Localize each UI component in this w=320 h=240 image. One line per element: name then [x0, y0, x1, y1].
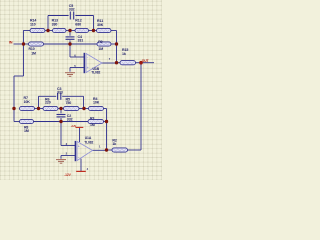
- svg-text:+12V: +12V: [71, 125, 77, 128]
- svg-text:+: +: [87, 66, 89, 70]
- svg-text:R10: R10: [29, 47, 35, 51]
- svg-text:+: +: [78, 145, 80, 149]
- svg-text:110: 110: [30, 23, 36, 27]
- svg-text:1M: 1M: [90, 123, 95, 127]
- svg-text:220: 220: [45, 101, 51, 105]
- svg-text:680: 680: [75, 23, 81, 27]
- svg-text:10K: 10K: [24, 100, 31, 104]
- svg-text:330: 330: [52, 23, 58, 27]
- svg-text:1k: 1k: [122, 52, 126, 56]
- svg-text:1M: 1M: [24, 129, 29, 133]
- svg-text:332: 332: [69, 7, 75, 11]
- svg-text:1k: 1k: [112, 142, 116, 146]
- svg-text:333: 333: [57, 90, 63, 94]
- svg-text:TL082: TL082: [84, 140, 93, 144]
- svg-text:1M: 1M: [31, 51, 36, 55]
- svg-text:10K: 10K: [93, 101, 100, 105]
- svg-text:TL082: TL082: [91, 70, 100, 74]
- svg-text:750: 750: [66, 101, 72, 105]
- svg-text:332: 332: [67, 118, 73, 122]
- svg-text:30K: 30K: [97, 23, 104, 27]
- svg-text:-12V: -12V: [64, 173, 71, 177]
- svg-text:R9: R9: [98, 40, 102, 44]
- svg-text:IN: IN: [9, 40, 13, 44]
- svg-text:R3: R3: [90, 117, 94, 121]
- svg-text:331: 331: [78, 39, 84, 43]
- svg-text:OUT: OUT: [142, 59, 149, 63]
- svg-text:1M: 1M: [98, 47, 103, 51]
